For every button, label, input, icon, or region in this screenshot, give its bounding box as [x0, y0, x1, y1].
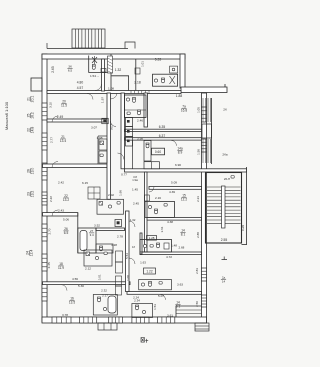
- terrace south line: [242, 244, 247, 246]
- vertical wall top rooms b: [144, 93, 148, 127]
- label room TL: [67, 65, 72, 73]
- small box above wc room: [145, 195, 150, 201]
- room labels outside-left: [27, 96, 35, 103]
- windows right wall: [202, 107, 207, 122]
- label room 7a: [181, 105, 187, 113]
- wall center W6: [127, 292, 202, 295]
- 0.60 box: [152, 148, 165, 155]
- outer wall left: [42, 54, 47, 322]
- label room 18i: [58, 262, 64, 270]
- svg-text:20.1: 20.1: [31, 96, 35, 103]
- svg-text:1.58: 1.58: [196, 149, 200, 155]
- label room 27i: [89, 229, 94, 237]
- svg-text:14.8: 14.8: [31, 127, 35, 134]
- stamp bottom: [141, 338, 148, 343]
- svg-text:2.50: 2.50: [195, 301, 199, 307]
- bathroom cluster mid top: [125, 95, 147, 118]
- svg-text:1.08: 1.08: [126, 275, 130, 281]
- mark right terrace: [222, 257, 228, 260]
- svg-text:2.68: 2.68: [178, 245, 184, 249]
- svg-text:13.0: 13.0: [31, 168, 35, 175]
- svg-text:6.15: 6.15: [82, 181, 88, 185]
- svg-text:5.26: 5.26: [241, 225, 245, 231]
- hatched shaft top: [108, 56, 113, 73]
- svg-text:1.08: 1.08: [108, 87, 114, 91]
- svg-text:3.10: 3.10: [49, 102, 53, 108]
- svg-text:1.98: 1.98: [119, 190, 123, 196]
- jog wall top-right: [181, 87, 227, 93]
- svg-text:11.5: 11.5: [61, 104, 67, 108]
- svg-text:3.78: 3.78: [62, 313, 68, 317]
- svg-text:13.5: 13.5: [69, 301, 75, 305]
- exterior stair hatch right wall lower: [203, 139, 211, 163]
- outer wall bottom: [42, 317, 207, 323]
- svg-text:3.98: 3.98: [137, 136, 143, 140]
- svg-text:9.1: 9.1: [176, 305, 181, 309]
- svg-text:8.9: 8.9: [178, 151, 183, 155]
- terrace east line: [246, 167, 248, 245]
- svg-text:12.4: 12.4: [30, 250, 34, 257]
- label room 26i: [63, 227, 68, 235]
- svg-text:4.57: 4.57: [77, 86, 84, 90]
- jog wall stub up: [224, 84, 226, 87]
- small box below shaft: [101, 69, 106, 73]
- svg-text:1.22: 1.22: [146, 270, 152, 274]
- top-right closet box: [170, 66, 178, 73]
- bath block left-bottom: [78, 228, 96, 253]
- svg-text:2.23: 2.23: [196, 196, 200, 202]
- svg-text:2.17: 2.17: [102, 293, 108, 297]
- label room 20: [61, 100, 67, 108]
- wc column mid band: [144, 141, 151, 162]
- label outside right 2d: [221, 276, 226, 284]
- svg-text:Масштаб 1:100: Масштаб 1:100: [4, 101, 9, 130]
- label room 22i: [63, 194, 69, 202]
- svg-text:1.01: 1.01: [141, 61, 145, 67]
- bathtub left: [80, 231, 87, 251]
- stair landing label: [224, 177, 230, 181]
- outer wall top-right vertical: [180, 54, 185, 88]
- svg-text:1.45: 1.45: [132, 188, 138, 192]
- top middle room wall b: [135, 59, 137, 91]
- windows bottom wall: [52, 317, 71, 323]
- stairwell treads: [207, 186, 241, 228]
- wall 6.90 mid right: [125, 169, 247, 172]
- svg-text:3.4: 3.4: [90, 233, 94, 237]
- svg-text:2.24: 2.24: [133, 295, 139, 299]
- label room 16i: [69, 297, 75, 305]
- door arcs: [95, 84, 102, 91]
- small room below shaft: [132, 140, 134, 169]
- label room 14b: [175, 301, 180, 309]
- vertical wall right-mid block: [145, 172, 148, 252]
- outer wall top: [42, 54, 185, 59]
- svg-text:6.90: 6.90: [175, 163, 181, 167]
- exterior stair hatch top: [47, 29, 135, 49]
- wall left W3: [43, 164, 108, 168]
- svg-text:5.30: 5.30: [78, 284, 84, 288]
- svg-text:1.28: 1.28: [111, 243, 117, 247]
- window ticks in W1: [131, 91, 149, 94]
- svg-text:2.45: 2.45: [47, 262, 51, 268]
- svg-text:2.22: 2.22: [49, 196, 53, 202]
- vertical bath strip left wall: [140, 233, 142, 254]
- small furniture near 2.18: [135, 68, 140, 74]
- top middle room walls: [88, 56, 90, 73]
- svg-text:13.2: 13.2: [63, 198, 69, 202]
- svg-text:26-П: 26-П: [224, 177, 230, 181]
- svg-text:16.8: 16.8: [181, 109, 187, 113]
- wc room mid right: [145, 201, 174, 217]
- wall corridor 6.35 north: [125, 129, 202, 131]
- closet cells left of corridor: [98, 135, 107, 137]
- svg-text:4.56: 4.56: [72, 277, 78, 281]
- wc box left-bottom: [96, 244, 113, 253]
- 1.22 box: [144, 268, 156, 274]
- svg-text:11.9: 11.9: [58, 266, 64, 270]
- closet grid small y187: [88, 187, 100, 199]
- svg-text:14: 14: [222, 280, 226, 284]
- svg-text:2.45: 2.45: [133, 201, 139, 205]
- svg-text:2.18: 2.18: [134, 81, 141, 85]
- kitchen mid-left: [97, 199, 124, 214]
- svg-text:3.61: 3.61: [167, 313, 173, 317]
- svg-text:1.48: 1.48: [171, 243, 177, 247]
- svg-text:2.78: 2.78: [117, 235, 123, 239]
- svg-text:2.77: 2.77: [50, 137, 54, 143]
- kitchen room E: [84, 250, 112, 266]
- svg-text:2.49: 2.49: [57, 115, 64, 119]
- svg-text:2.88: 2.88: [196, 232, 200, 238]
- small room bottom center: [132, 304, 153, 318]
- svg-text:2б: 2б: [223, 108, 227, 112]
- wall W1 below top rooms: [47, 91, 181, 94]
- svg-text:13.4: 13.4: [60, 139, 66, 143]
- svg-text:1.9м: 1.9м: [132, 178, 138, 182]
- svg-text:4.80: 4.80: [77, 80, 84, 84]
- svg-text:0.60: 0.60: [155, 150, 161, 154]
- label room 14m: [180, 229, 185, 237]
- label room 15: [181, 194, 187, 202]
- label room 14a-u: [177, 147, 183, 155]
- svg-text:1.32: 1.32: [130, 218, 136, 222]
- svg-text:3.52: 3.52: [94, 223, 100, 227]
- vertical wall top rooms a: [102, 59, 105, 91]
- svg-text:1.54→: 1.54→: [90, 74, 99, 78]
- svg-text:6.5: 6.5: [64, 231, 69, 235]
- shaft box left of corridor lower: [115, 220, 122, 227]
- bath room F: [93, 295, 117, 316]
- terrace outline right: [211, 98, 213, 164]
- svg-text:3.01: 3.01: [98, 274, 102, 280]
- svg-text:1.53: 1.53: [153, 304, 157, 310]
- dim 1.28b box: [147, 236, 157, 241]
- wall left W5: [43, 282, 131, 285]
- svg-text:5.09: 5.09: [171, 181, 177, 185]
- svg-text:4.38: 4.38: [167, 220, 173, 224]
- wall left W2: [47, 119, 107, 122]
- closet boxes along x115: [116, 251, 123, 262]
- svg-text:5.07: 5.07: [158, 294, 164, 298]
- left mid-partition under W4: [77, 213, 79, 253]
- svg-text:5.33: 5.33: [155, 57, 162, 61]
- exterior stair hatch right wall upper: [203, 98, 211, 122]
- svg-text:5.54: 5.54: [125, 253, 129, 259]
- corridor west wall V1: [107, 93, 111, 199]
- porch bottom center: [98, 323, 117, 330]
- svg-text:2.65: 2.65: [51, 66, 55, 73]
- corridor lower east wall: [126, 211, 130, 292]
- shaft column right of corridor: [126, 118, 133, 127]
- svg-text:3.63: 3.63: [177, 283, 183, 287]
- svg-text:13.2: 13.2: [31, 191, 35, 198]
- svg-text:1.28: 1.28: [149, 236, 155, 240]
- svg-text:4.39: 4.39: [169, 190, 175, 194]
- heater box at V1-W2 junction: [102, 118, 108, 123]
- svg-text:1.98: 1.98: [96, 136, 102, 140]
- svg-text:6.35: 6.35: [159, 125, 166, 129]
- wall left W4: [43, 213, 78, 216]
- svg-text:12.2: 12.2: [181, 198, 187, 202]
- small label 19: [132, 245, 135, 249]
- svg-text:2ба: 2ба: [222, 153, 227, 157]
- svg-text:1.32: 1.32: [115, 68, 122, 72]
- bath center bottom room: [139, 280, 172, 290]
- wall segment y228 corridor-south: [96, 228, 125, 231]
- svg-text:2.16: 2.16: [155, 196, 161, 200]
- svg-text:9.07: 9.07: [110, 124, 114, 130]
- closet cells above 6.90 wall: [144, 162, 159, 169]
- top-right bathroom: [153, 74, 178, 86]
- svg-text:6.37: 6.37: [159, 134, 166, 138]
- svg-text:6.5: 6.5: [68, 69, 73, 73]
- svg-text:5.06: 5.06: [63, 218, 69, 222]
- wall right W9: [145, 217, 202, 220]
- svg-text:1б: 1б: [132, 245, 135, 249]
- svg-text:3.61: 3.61: [160, 226, 164, 232]
- corridor east wall V2: [121, 93, 124, 169]
- outer wall right main: [202, 93, 207, 322]
- bath strip center-bottom: [140, 240, 172, 253]
- wall center W7 bath strip south: [140, 252, 202, 255]
- label room 21i: [60, 135, 66, 143]
- svg-text:1.63: 1.63: [140, 260, 146, 264]
- stairwell main box: [206, 173, 242, 244]
- svg-text:1.97: 1.97: [101, 97, 105, 103]
- left facade protrusion: [31, 78, 42, 91]
- svg-text:1.88: 1.88: [176, 94, 183, 98]
- svg-text:2.46: 2.46: [137, 119, 143, 123]
- svg-text:3.07: 3.07: [91, 125, 97, 129]
- svg-text:4.72: 4.72: [166, 255, 172, 259]
- porch bottom right corner: [195, 323, 209, 331]
- wc top-left fixtures: [92, 56, 97, 64]
- svg-text:2.83: 2.83: [195, 268, 199, 274]
- svg-text:2.32: 2.32: [101, 288, 107, 292]
- svg-text:2.02: 2.02: [108, 193, 114, 197]
- windows left wall: [42, 103, 47, 120]
- svg-text:1.05: 1.05: [196, 107, 200, 113]
- svg-text:0.77: 0.77: [121, 173, 127, 177]
- svg-text:2.55: 2.55: [221, 238, 228, 242]
- wall corridor 6.37 south: [125, 138, 202, 140]
- svg-text:16.2: 16.2: [31, 112, 35, 119]
- wall under 1.32 room: [112, 76, 129, 91]
- porch bottom right steps: [176, 306, 202, 317]
- svg-text:2.42: 2.42: [58, 180, 64, 184]
- svg-text:8.1: 8.1: [181, 233, 186, 237]
- chimney block right wall: [202, 124, 212, 138]
- svg-text:2.43: 2.43: [58, 209, 64, 213]
- svg-text:2.12: 2.12: [85, 267, 91, 271]
- svg-text:2.70: 2.70: [48, 228, 52, 234]
- wall right W8: [149, 187, 202, 190]
